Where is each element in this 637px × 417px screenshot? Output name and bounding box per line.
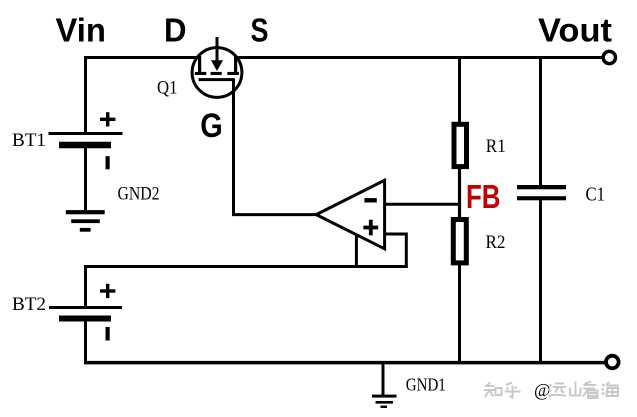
ground GND1 [372,395,397,408]
svg-text:R2: R2 [486,232,506,253]
watermark: 知乎 @远山看海 [484,380,619,400]
wire: BT1 negative plate down to GND2 [84,147,87,212]
op-amp non-inverting input marker (plus) [363,220,378,236]
wire: divider column from top rail to R1 [458,56,461,124]
svg-text:Q1: Q1 [157,78,178,99]
svg-text:BT1: BT1 [12,130,46,151]
svg-text:GND1: GND1 [406,375,446,395]
resistor R1 [454,124,467,166]
op-amp U1 [316,180,384,249]
svg-text:GND2: GND2 [118,184,160,205]
svg-text:Vout: Vout [538,12,612,49]
svg-text:S: S [251,12,269,49]
op-amp inverting input marker (minus) [364,198,376,202]
wire: top rail from Vin node across D/S to Vout terminal [84,56,602,59]
wire: gate of Q1 down and right to op-amp output [234,79,318,215]
wire: op-amp negative supply pin to bottom rail [355,235,358,267]
ground GND2 [66,210,105,232]
transistor Q1 (PMOS pass switch) [192,37,242,97]
wire: GND1 branch [382,362,385,396]
wire: R1 to R2 (FB node) [458,167,461,221]
wire: C1 top branch from top rail [539,56,542,186]
svg-text:Vin: Vin [56,12,107,49]
wire: R2 down to ground rail [458,263,461,365]
BT2 minus sign [106,327,110,341]
terminal: bottom right return (open circle) [606,356,619,369]
wire: BT2 negative down to ground rail [84,320,87,364]
terminal: Vout (open circle) [603,51,615,63]
wire: inverting input to FB node [385,203,461,206]
wire: non-inverting input step down to bottom rail [385,234,407,267]
battery BT2 [49,308,122,319]
svg-text:FB: FB [466,178,501,215]
BT1 plus sign [100,112,115,126]
svg-text:R1: R1 [486,136,506,157]
wire: ground/bottom rail to output terminal [84,361,605,365]
svg-text:C1: C1 [586,184,606,206]
BT1 minus sign [106,156,110,169]
battery BT1 [49,134,123,146]
wire: bottom rail from BT2 positive to op-amp [84,265,408,268]
wire: BT2 positive branch down from rail [84,265,87,308]
svg-text:D: D [164,12,187,49]
svg-text:G: G [200,107,223,145]
svg-text:BT2: BT2 [12,294,46,315]
resistor R2 [453,220,466,263]
capacitor C1 [517,185,566,200]
wire: Vin branch down to BT1 positive plate [84,56,87,134]
BT2 plus sign [100,284,115,298]
wire: C1 bottom branch to ground rail [539,199,542,364]
